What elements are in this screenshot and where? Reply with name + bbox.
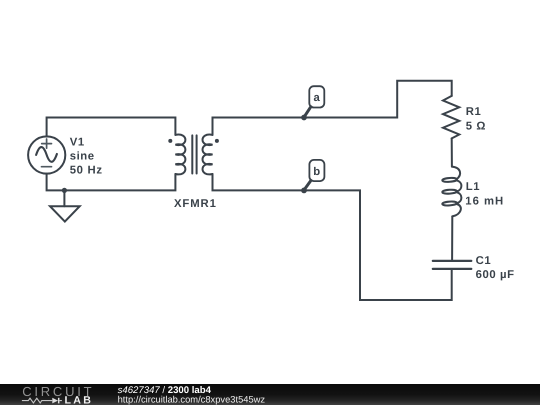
wire L1 to C1 bbox=[451, 216, 453, 259]
V1 plus sign bbox=[42, 139, 52, 148]
node a dot bbox=[301, 115, 307, 121]
junction dot at ground bbox=[62, 188, 67, 193]
wire primary bottom: V1 bottom to transformer primary bottom bbox=[47, 174, 176, 191]
transformer secondary phase dot bbox=[215, 139, 219, 143]
svg-text:LAB: LAB bbox=[65, 394, 94, 405]
svg-text:b: b bbox=[313, 166, 321, 178]
inductor L1 loop 3 bbox=[442, 201, 457, 206]
V1 sine waveform bbox=[36, 147, 57, 162]
capacitor C1 bottom plate bbox=[433, 268, 472, 270]
svg-text:a: a bbox=[313, 92, 320, 104]
node b dot bbox=[301, 188, 307, 194]
svg-text:V1: V1 bbox=[70, 136, 85, 148]
inductor L1 bottom arc bbox=[452, 204, 461, 216]
transformer XFMR1 secondary winding bbox=[203, 135, 213, 175]
inductor L1 arc 1-2 bbox=[457, 180, 462, 191]
node flag b tag line bbox=[304, 181, 311, 190]
svg-text:600 µF: 600 µF bbox=[476, 269, 515, 281]
svg-text:L1: L1 bbox=[466, 181, 480, 193]
voltage source V1 circle bbox=[28, 136, 65, 173]
wire primary top: V1 top to transformer primary top bbox=[47, 118, 176, 137]
CircuitLab logo diode symbol bbox=[52, 398, 58, 404]
node flag a tag line bbox=[304, 107, 310, 117]
node flag b rounded box bbox=[309, 160, 324, 181]
svg-text:R1: R1 bbox=[466, 106, 482, 118]
transformer XFMR1 primary winding bbox=[175, 135, 185, 175]
capacitor C1 top plate bbox=[433, 260, 472, 262]
svg-text:16 mH: 16 mH bbox=[465, 195, 504, 207]
node flag a rounded box bbox=[309, 86, 324, 107]
footer black bar bbox=[0, 384, 540, 405]
ground symbol triangle bbox=[50, 206, 80, 221]
inductor L1 arc 2-3 bbox=[457, 192, 462, 203]
CircuitLab logo wire squiggle with resistor bbox=[22, 398, 62, 403]
resistor R1 zigzag bbox=[443, 96, 459, 138]
transformer XFMR1 core lines bbox=[192, 135, 196, 173]
wire ground stub bbox=[63, 190, 65, 206]
svg-text:5 Ω: 5 Ω bbox=[466, 121, 486, 133]
wire secondary top: transformer to node a and up to R1 bbox=[213, 81, 452, 135]
transformer primary phase dot bbox=[168, 139, 172, 143]
svg-text:XFMR1: XFMR1 bbox=[174, 198, 217, 210]
inductor L1 top arc bbox=[452, 167, 460, 180]
svg-text:50 Hz: 50 Hz bbox=[70, 165, 103, 177]
wire R1 to L1 bbox=[451, 138, 453, 166]
svg-text:C1: C1 bbox=[476, 255, 492, 267]
svg-text:sine: sine bbox=[70, 150, 95, 162]
inductor L1 loop 1 bbox=[442, 177, 457, 182]
svg-text:http://circuitlab.com/c8xpve3t: http://circuitlab.com/c8xpve3t545wz bbox=[118, 394, 266, 404]
V1 minus sign bbox=[42, 166, 52, 168]
inductor L1 loop 2 bbox=[442, 189, 457, 194]
wire secondary bottom: transformer to node b and down to bottom rail bbox=[213, 174, 452, 300]
